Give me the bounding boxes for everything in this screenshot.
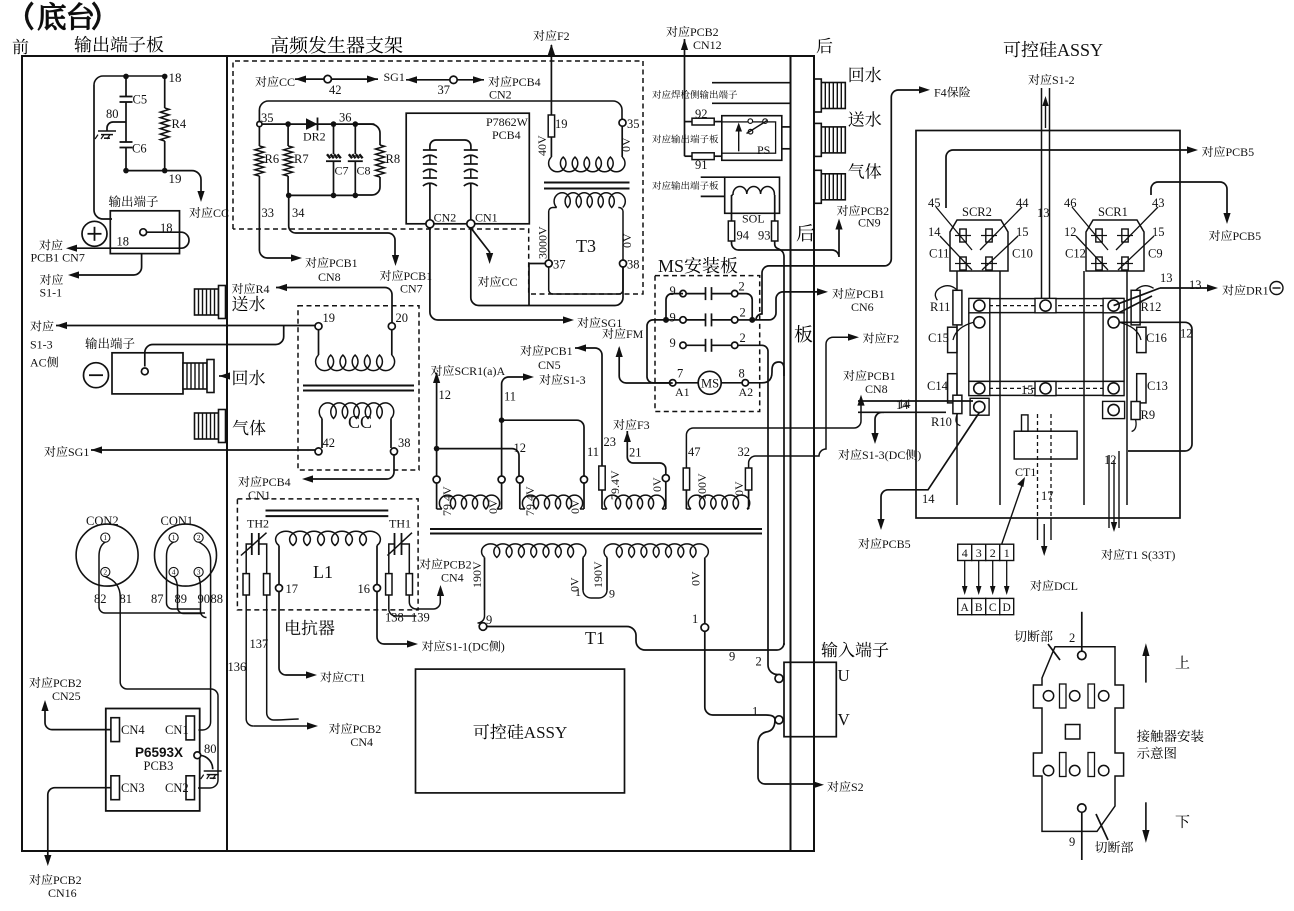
label U xyxy=(838,666,850,685)
svg-text:SG1: SG1 xyxy=(601,316,622,330)
label CN9 xyxy=(858,216,881,230)
CT1 stem xyxy=(1022,415,1029,431)
svg-text:37: 37 xyxy=(438,83,451,97)
svg-text:0V: 0V xyxy=(650,477,664,492)
svg-text:SCR2: SCR2 xyxy=(962,205,992,219)
label 17 xyxy=(286,582,299,596)
wire CN2 to SG1 xyxy=(430,228,568,320)
label SCR2 xyxy=(962,205,992,219)
label 100V W4 xyxy=(695,473,709,500)
fuse 137 lead xyxy=(264,574,270,595)
resistor R9 body xyxy=(1131,402,1140,420)
svg-text:): ) xyxy=(501,640,505,654)
label 11 right xyxy=(587,445,599,459)
svg-text:CC: CC xyxy=(279,75,295,89)
svg-text:R4: R4 xyxy=(256,282,270,296)
label 32 xyxy=(738,445,751,459)
wire to SOL mid xyxy=(701,195,725,197)
label 15 SCR1 xyxy=(1152,225,1165,239)
label T3 xyxy=(576,236,596,256)
svg-text:9: 9 xyxy=(670,284,676,298)
label CN7 mid xyxy=(400,282,423,296)
label 35 T3 xyxy=(627,117,640,131)
contact A2 xyxy=(742,380,748,386)
label 对应R4 xyxy=(232,282,270,296)
hose connector 送水 left panel xyxy=(195,286,226,319)
terminal block 4 3 2 1 xyxy=(958,544,1014,595)
label 1 wire xyxy=(752,705,758,719)
terminal stud circle - xyxy=(141,368,148,375)
svg-text:2: 2 xyxy=(740,331,746,345)
label 对应PCB5 bottom xyxy=(858,537,910,551)
label CON2 xyxy=(86,514,119,528)
label L1 xyxy=(313,562,333,582)
label C13 xyxy=(1147,379,1168,393)
wire R10 hook xyxy=(956,414,960,426)
junction 19a xyxy=(123,168,129,174)
svg-text:4: 4 xyxy=(172,568,176,577)
terminal W2 79.4V xyxy=(516,476,523,483)
svg-text:0V: 0V xyxy=(732,481,746,496)
label 33 xyxy=(262,206,275,220)
wire CC coil to 42 xyxy=(321,419,323,449)
label DR2 xyxy=(303,130,326,144)
label output terminal board ref2 xyxy=(652,181,718,190)
wire F2 vertical upper xyxy=(550,45,552,115)
label 12 W1 xyxy=(439,388,452,402)
label R6 xyxy=(265,152,280,166)
stud below bus1 right xyxy=(1108,317,1119,328)
svg-text:12: 12 xyxy=(439,388,452,402)
wire 47 to PCB1 CN8 right xyxy=(686,401,861,468)
label 对应DR1 xyxy=(1222,284,1268,298)
svg-text:79.4V: 79.4V xyxy=(440,486,454,516)
terminal 19 CC xyxy=(315,323,322,330)
svg-text:D: D xyxy=(1003,602,1011,614)
fuse 91 xyxy=(692,153,714,160)
svg-text:CN5: CN5 xyxy=(538,358,561,372)
label 回水 left xyxy=(233,370,265,386)
svg-text:A2: A2 xyxy=(739,385,754,399)
svg-text:CT1: CT1 xyxy=(344,671,365,685)
svg-text:S1-2: S1-2 xyxy=(1052,73,1075,87)
svg-text:MS: MS xyxy=(701,377,719,391)
svg-text:PCB1: PCB1 xyxy=(867,369,896,383)
svg-text:CC: CC xyxy=(213,206,229,220)
svg-text:C11: C11 xyxy=(929,247,949,261)
label 对应CC mid xyxy=(478,275,518,289)
label 37 top xyxy=(438,83,451,97)
svg-text:PCB2: PCB2 xyxy=(53,676,82,690)
svg-text:2: 2 xyxy=(103,568,107,577)
svg-text:87: 87 xyxy=(151,592,164,606)
svg-text:R6: R6 xyxy=(265,152,280,166)
wire row2 stub left xyxy=(666,319,680,321)
arrow to S2 xyxy=(813,781,824,788)
label CN8 right2 xyxy=(865,382,888,396)
plate bolt A2u xyxy=(1035,298,1056,312)
contactor terminals upper xyxy=(1043,691,1109,701)
label input terminal xyxy=(821,642,888,658)
wire SG1 line left xyxy=(295,78,378,80)
svg-text:R10: R10 xyxy=(931,415,952,429)
label CN1 PCB3 xyxy=(165,723,189,737)
label CN16 xyxy=(48,886,77,900)
arrow right to SG1 xyxy=(367,76,378,83)
wire T1 1 to V terminal xyxy=(705,631,775,720)
label TH1 xyxy=(389,517,411,531)
arrow down 下 xyxy=(1142,802,1149,843)
label 切断部 top xyxy=(1014,630,1052,642)
T3 secondary body loop xyxy=(549,208,623,295)
svg-text:2: 2 xyxy=(740,306,746,320)
label CN1 PCB4 xyxy=(475,211,498,225)
terminal W2 0V xyxy=(581,476,588,483)
wire CN12 vertical xyxy=(684,39,686,156)
svg-text:R4: R4 xyxy=(172,117,187,131)
diode DR2 xyxy=(306,118,318,131)
thyristor SCR2 block xyxy=(950,220,1008,271)
wire 137 down xyxy=(267,595,299,720)
CON1 pin 4 xyxy=(169,567,178,576)
terminal 42 CC xyxy=(315,448,322,455)
label 对应S2 xyxy=(827,780,863,794)
label CN6 xyxy=(851,300,874,314)
label 17 CT1 xyxy=(1041,489,1054,503)
label 对应PCB4 CN1 xyxy=(238,475,290,489)
label 9 wire xyxy=(729,650,735,664)
wire pair 12 to T1 S xyxy=(1109,451,1119,532)
svg-text:SCR1: SCR1 xyxy=(1098,205,1128,219)
CC upper coil xyxy=(316,355,395,371)
svg-text:1: 1 xyxy=(103,533,107,542)
junction R7 top xyxy=(285,121,291,127)
label 12 SCR1 xyxy=(1064,225,1077,239)
capacitor C5 xyxy=(120,97,133,103)
svg-text:82: 82 xyxy=(94,592,107,606)
wire top rail node18 xyxy=(94,76,165,85)
wire 82 CON2 pin1 to bundle xyxy=(99,542,205,613)
svg-text:43: 43 xyxy=(1152,196,1165,210)
capacitor C16 body xyxy=(1137,327,1146,352)
arrow from terminal block to CT1 xyxy=(1000,477,1025,549)
plus symbol circle xyxy=(82,221,107,246)
wire W1 left to coil xyxy=(436,483,438,509)
label 82 xyxy=(94,592,107,606)
svg-text:12: 12 xyxy=(1180,327,1193,341)
label 37 T3 xyxy=(553,258,566,272)
ground stud on PCB3 xyxy=(194,752,201,759)
junction W1 12 xyxy=(434,446,440,452)
label 对应T1S33T xyxy=(1101,548,1175,562)
wire node19 to CC arrow xyxy=(165,171,201,196)
capacitor stack left PCB4 xyxy=(423,150,437,186)
svg-text:12: 12 xyxy=(1104,453,1117,467)
svg-text:C14: C14 xyxy=(927,379,949,393)
svg-text:12: 12 xyxy=(1064,225,1077,239)
label 对应PCB2 CN9 xyxy=(837,204,889,218)
wire 94 to PCB2 CN9 xyxy=(732,225,840,258)
label 对应PCB1 CN6 xyxy=(832,287,884,301)
wire R12 hook xyxy=(1136,286,1154,291)
label 1 T1 mid xyxy=(575,585,581,599)
hose connector 气体 rear xyxy=(814,170,845,203)
wire 对应R4 to CC pin20 part1 xyxy=(276,287,385,289)
arrow to PCB2 CN16 xyxy=(44,855,51,866)
svg-text:CN1: CN1 xyxy=(165,723,189,737)
wire to circle 9 xyxy=(478,610,485,623)
wire W4 right to coil xyxy=(748,490,750,509)
wire 81 CON2 pin2 to CN2 xyxy=(105,577,218,788)
svg-text:V: V xyxy=(838,710,851,729)
contactor top lead xyxy=(1081,612,1083,651)
terminal W3 0V 21 xyxy=(662,475,669,482)
wire from rail to output terminal + xyxy=(94,85,112,219)
svg-text:U: U xyxy=(838,666,850,685)
W4 coil ends xyxy=(686,508,748,510)
label PCB3 xyxy=(144,759,174,773)
svg-text:7: 7 xyxy=(677,367,683,381)
leader 切断部 bottom xyxy=(1096,814,1108,840)
stub 91 xyxy=(685,155,693,157)
wire R11 hook xyxy=(935,286,957,301)
wire right stack to CN1 xyxy=(470,184,472,220)
HF generator bracket dashed outline xyxy=(233,61,643,294)
svg-text:): ) xyxy=(917,448,921,462)
label 80 PCB3 xyxy=(204,742,217,756)
label PCB1 CN7 xyxy=(31,251,85,265)
terminal 35 T3 xyxy=(619,119,626,126)
wire W4 left to coil xyxy=(685,490,687,509)
arrow to PCB1 CN8 left xyxy=(291,254,302,261)
svg-text:1: 1 xyxy=(752,705,758,719)
label 79.4V W3 xyxy=(608,470,622,500)
junction node 18a xyxy=(123,74,129,80)
svg-text:CN16: CN16 xyxy=(48,886,77,900)
svg-text:190V: 190V xyxy=(470,561,484,588)
svg-text:TH1: TH1 xyxy=(389,517,411,531)
T1 primary left coil xyxy=(482,544,586,558)
label CN2 PCB3 xyxy=(165,781,189,795)
svg-text:13: 13 xyxy=(1037,206,1050,220)
thyristor SCR1 block xyxy=(1086,220,1144,271)
label 对应F2 top xyxy=(533,29,569,43)
label S1-1 xyxy=(40,286,63,300)
label 19 T3 xyxy=(555,117,568,131)
arrow to CC xyxy=(197,191,204,202)
arrow to F2 right xyxy=(848,334,859,341)
label C8 xyxy=(357,164,371,178)
label SG1 xyxy=(384,70,405,84)
wire R4 to node 19 xyxy=(164,141,166,171)
L1 coil xyxy=(276,531,381,545)
wire 11 to S1-3 xyxy=(502,377,528,384)
contactor body xyxy=(1033,647,1123,832)
arrow to DR1 xyxy=(1207,284,1218,291)
svg-text:40V: 40V xyxy=(535,135,549,156)
label 88 xyxy=(211,592,224,606)
label 13 pair xyxy=(1037,206,1050,220)
wire T1 9 to fuse93 vertical xyxy=(487,627,784,651)
svg-text:C7: C7 xyxy=(335,164,349,178)
wire to PCB5 2 xyxy=(1151,182,1227,218)
svg-text:42: 42 xyxy=(323,436,336,450)
svg-text:CN7: CN7 xyxy=(400,282,423,296)
MS row3 left contact xyxy=(680,342,686,348)
wire R6 to 33 down xyxy=(258,176,260,250)
label 送水 rear xyxy=(848,111,881,127)
fuse W4 32 xyxy=(745,468,751,490)
junction 34c xyxy=(353,193,359,199)
wire 19 to coil xyxy=(318,330,320,355)
W3 coil ends xyxy=(602,508,666,510)
svg-text:80: 80 xyxy=(106,107,119,121)
svg-text:PCB5: PCB5 xyxy=(1226,145,1255,159)
capacitor C15 body xyxy=(948,327,957,352)
wire W1 right to coil xyxy=(501,483,503,509)
rear panel line xyxy=(790,56,792,851)
DCL wire pair xyxy=(1038,518,1052,556)
wire C6 to bottom rail xyxy=(125,148,127,171)
terminal W1 0V xyxy=(498,476,505,483)
contactor top hole xyxy=(1078,651,1086,659)
label CN4 up xyxy=(441,571,464,585)
capacitor C13 body xyxy=(1137,374,1146,403)
label 对应SG1 left xyxy=(44,445,89,459)
wire C8 bottom lead xyxy=(354,162,356,196)
label 对应SCR1aA xyxy=(431,364,506,378)
wire 88 CON1 pin2 bundle to CN1 xyxy=(198,542,210,730)
label 0V T3 upper xyxy=(619,137,633,152)
wire to DR1 xyxy=(1160,287,1212,289)
plate bolt A3u xyxy=(1103,298,1124,312)
label 对应PCB1 CN5 xyxy=(520,344,572,358)
label S1-3 xyxy=(30,338,53,352)
label CN8 left xyxy=(318,270,341,284)
wire 14 lower line xyxy=(884,411,946,413)
svg-text:SOL: SOL xyxy=(742,212,765,226)
arrow to PCB4 CN1 xyxy=(302,475,313,482)
svg-text:32: 32 xyxy=(738,445,751,459)
svg-text:33: 33 xyxy=(262,206,275,220)
wire rail to C5 xyxy=(125,76,127,96)
label 0V W2 xyxy=(568,499,582,514)
arrow to PCB5 bottom xyxy=(877,519,884,530)
solenoid SOL box xyxy=(725,177,780,213)
arrow to S1-3 xyxy=(523,373,534,380)
wire 33 to PCB1 CN8 xyxy=(259,250,296,258)
wire V to S2 xyxy=(758,720,819,784)
label 对应PCB5 top xyxy=(1202,145,1254,159)
bus bar lower xyxy=(969,381,1124,395)
svg-text:DR2: DR2 xyxy=(303,130,326,144)
wire gun-side upper xyxy=(712,82,791,84)
arrow up 上 xyxy=(1142,643,1149,682)
wire row2 left xyxy=(686,319,705,321)
svg-text:MS: MS xyxy=(658,256,684,276)
svg-text:88: 88 xyxy=(211,592,224,606)
svg-text:2: 2 xyxy=(1069,631,1075,645)
junction C7 top xyxy=(331,121,337,127)
label CON1 xyxy=(161,514,194,528)
wire T1 1-9 U link xyxy=(583,590,607,598)
wire rail to R8 xyxy=(355,124,380,145)
svg-text:14: 14 xyxy=(896,398,909,412)
wire fuse19 to coil xyxy=(550,137,552,157)
svg-text:42: 42 xyxy=(329,83,342,97)
CON2 pin 1 xyxy=(101,533,110,542)
wire 13 diagonal xyxy=(1114,288,1160,306)
svg-text:2: 2 xyxy=(990,546,996,560)
svg-text:CC: CC xyxy=(348,412,372,432)
arrow to CT1 xyxy=(306,671,317,678)
svg-text:47: 47 xyxy=(688,445,701,459)
wire PCB3 stud to ground xyxy=(201,755,213,769)
label 后 panel2 xyxy=(797,224,815,241)
label 14 left xyxy=(896,398,909,412)
label SOL xyxy=(742,212,765,226)
arrow to PCB1 CN6 xyxy=(817,288,828,295)
label 18 top xyxy=(169,70,182,85)
wire 34 rail xyxy=(288,194,355,196)
label C10 xyxy=(1012,247,1033,261)
svg-text:CN4: CN4 xyxy=(441,571,464,585)
svg-text:PCB1: PCB1 xyxy=(544,344,573,358)
svg-text:P7862W: P7862W xyxy=(486,115,529,129)
label AC侧 xyxy=(30,356,58,370)
wire FM to A1 xyxy=(619,348,673,383)
terminal 38 CC xyxy=(391,448,398,455)
wire TH2 left lead xyxy=(246,544,252,574)
svg-text:1: 1 xyxy=(575,585,581,599)
connector CN2 on PCB3 xyxy=(186,776,195,800)
label 23 xyxy=(604,435,617,449)
svg-text:12: 12 xyxy=(514,441,527,455)
hose connector 回水 left panel xyxy=(183,360,214,393)
label C14 xyxy=(927,379,949,393)
label 0V T1L xyxy=(568,577,582,592)
svg-text:SG1: SG1 xyxy=(384,70,405,84)
svg-text:F2: F2 xyxy=(887,332,900,346)
output terminal - box xyxy=(112,353,183,394)
wire W2 left to coil xyxy=(519,483,521,509)
MS row1 right contact xyxy=(732,290,738,296)
terminal CN2 PCB4 xyxy=(426,220,434,228)
output terminal + box xyxy=(110,211,179,254)
label CT1 xyxy=(1015,465,1036,479)
arrow to PCB2 CN4 low xyxy=(307,722,318,729)
T3 upper coil xyxy=(549,157,625,172)
MS mounting board dashed box xyxy=(655,276,760,412)
label 19 xyxy=(169,171,182,186)
label 对应S1-2 xyxy=(1028,73,1074,87)
wire 37 stub xyxy=(529,263,545,265)
arrow to S1-3 AC xyxy=(56,322,67,329)
wire CN1 diagonal to CC label xyxy=(471,228,490,258)
svg-text:C9: C9 xyxy=(1148,247,1163,261)
svg-text:81: 81 xyxy=(120,592,133,606)
W1 coil ends xyxy=(437,508,502,510)
SCR assembly outline box mid xyxy=(416,669,625,793)
wire 11 branch to W2 right xyxy=(502,420,584,476)
terminal 9 T1 xyxy=(479,623,487,631)
label output terminal + xyxy=(109,195,158,207)
leader 切断部 top xyxy=(1048,644,1060,660)
label 接触器安装 xyxy=(1137,730,1204,743)
svg-text:9: 9 xyxy=(609,587,615,601)
svg-text:45: 45 xyxy=(928,196,941,210)
junction node 18b xyxy=(162,74,168,80)
